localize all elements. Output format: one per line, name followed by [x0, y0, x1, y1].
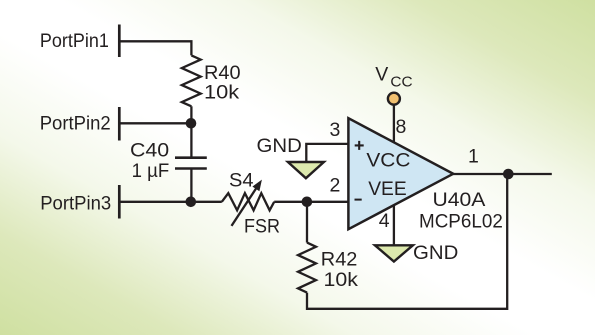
svg-text:R42: R42 [321, 248, 358, 270]
svg-text:GND: GND [413, 242, 458, 264]
svg-text:8: 8 [396, 116, 407, 138]
svg-text:PortPin2: PortPin2 [40, 112, 111, 134]
svg-text:4: 4 [379, 210, 390, 232]
label R40 10k [204, 62, 241, 104]
resistor R40 [182, 55, 201, 106]
junction node PortPin3 / C40 / FSR [186, 197, 197, 208]
junction node output [503, 169, 514, 180]
svg-text:3: 3 [330, 119, 341, 141]
label C40 1 uF [130, 140, 169, 182]
wire PortPin3 to FSR [121, 201, 222, 203]
wire R42 to output (feedback) [307, 174, 507, 309]
label VCC supply [375, 64, 412, 91]
wire R40 to C40 [190, 106, 192, 157]
junction node PortPin2 / R40 / C40 [186, 118, 197, 129]
junction node inverting input / R42 [302, 197, 313, 208]
svg-text:VEE: VEE [368, 178, 407, 200]
node PortPin2 [40, 107, 120, 141]
svg-text:CC: CC [390, 74, 412, 90]
svg-text:C40: C40 [130, 140, 169, 162]
ground at pin 4 [375, 245, 413, 261]
svg-text:PortPin3: PortPin3 [40, 192, 111, 214]
wire C40 to PortPin3 node [190, 169, 192, 202]
svg-text:2: 2 [330, 175, 341, 197]
wire PortPin1 to R40 [121, 41, 192, 55]
svg-text:10k: 10k [204, 82, 239, 104]
wire PortPin2 to junction [121, 122, 192, 124]
wire junction to R42 [306, 202, 308, 243]
svg-text:GND: GND [257, 135, 302, 157]
node PortPin3 [40, 185, 119, 219]
svg-text:VCC: VCC [366, 149, 410, 171]
svg-text:PortPin1: PortPin1 [40, 30, 109, 52]
svg-text:FSR: FSR [244, 216, 280, 238]
svg-text:MCP6L02: MCP6L02 [419, 210, 503, 232]
wire output pin 1 [453, 173, 552, 175]
wire GND to non-inverting input [306, 144, 349, 162]
svg-text:10k: 10k [324, 269, 359, 291]
ground at non-inverting input [288, 162, 324, 178]
wire FSR to inverting input [274, 201, 349, 203]
wire VCC to pin 8 [393, 105, 395, 143]
supply VCC [388, 93, 400, 105]
node PortPin1 [40, 25, 119, 58]
wire pin 4 to ground [393, 205, 395, 245]
svg-text:1: 1 [468, 146, 479, 168]
svg-text:S4: S4 [229, 169, 254, 191]
potentiometer S4 FSR [222, 180, 274, 226]
capacitor C40 [175, 158, 207, 169]
label R42 10k [321, 248, 358, 291]
svg-text:V: V [375, 64, 388, 86]
op-amp U40A [348, 118, 453, 229]
svg-text:1 µF: 1 µF [132, 160, 170, 182]
svg-text:U40A: U40A [433, 189, 486, 211]
resistor R42 [298, 243, 316, 293]
